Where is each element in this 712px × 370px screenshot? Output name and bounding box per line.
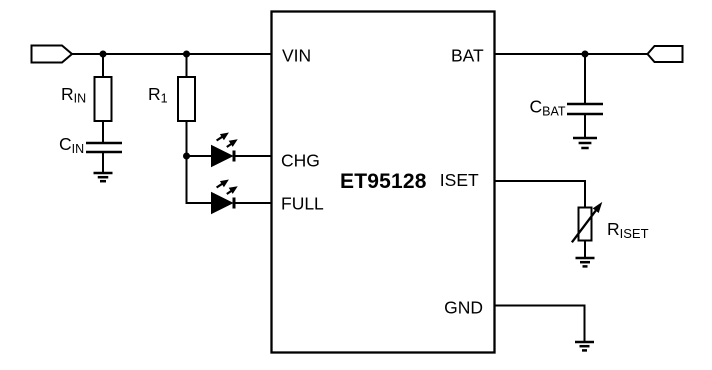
wire CHG LED to pin: [234, 155, 272, 157]
LED D1 arrow 2: [227, 139, 238, 147]
node RIN junction: [100, 51, 107, 58]
wire FULL LED to pin: [234, 202, 272, 204]
wire RIN to CIN: [102, 121, 104, 143]
resistor RISET: [579, 208, 592, 241]
resistor R1: [178, 77, 195, 121]
svg-text:ET95128: ET95128: [340, 170, 427, 193]
ground (CIN): [94, 173, 113, 181]
wire RIN top: [102, 54, 104, 78]
wire CBAT to ground: [584, 114, 586, 139]
capacitor CBAT: [567, 104, 603, 114]
connector J2 (output): [648, 46, 683, 62]
LED D2 arrow 2: [227, 186, 238, 194]
ground (RISET): [576, 258, 595, 266]
wire VIN main: [72, 53, 272, 55]
LED D2 cathode bar: [233, 198, 236, 209]
node LED junction: [183, 153, 190, 160]
wire junction to CHG LED: [187, 155, 212, 157]
ground (CBAT): [573, 138, 597, 148]
op-amp U1 ET95128 body: [272, 12, 495, 353]
wire BAT main: [494, 53, 648, 55]
svg-text:GND: GND: [444, 298, 483, 318]
LED D1 arrow 1: [217, 133, 229, 141]
wire CBAT vertical: [584, 54, 586, 104]
LED D1 (CHG) triangle: [212, 146, 233, 167]
node BAT junction: [582, 51, 589, 58]
wire R1 bottom to FULL corner: [187, 121, 212, 203]
svg-text:ISET: ISET: [440, 170, 479, 190]
ground (GND pin): [575, 342, 594, 350]
wire ISET: [494, 181, 586, 208]
wire GND: [494, 306, 585, 343]
svg-text:BAT: BAT: [451, 46, 484, 66]
LED D2 arrow 1: [217, 180, 229, 188]
LED D1 cathode bar: [233, 151, 236, 162]
connector J1 (input): [32, 46, 73, 63]
wire RISET to ground: [584, 241, 586, 259]
node R1 junction: [183, 51, 190, 58]
svg-text:VIN: VIN: [282, 46, 311, 66]
arrow on RISET: [572, 202, 602, 242]
LED D2 (FULL) triangle: [212, 193, 233, 214]
svg-text:FULL: FULL: [281, 193, 324, 213]
svg-text:CHG: CHG: [281, 150, 320, 170]
capacitor CIN: [86, 143, 122, 152]
resistor RIN: [95, 77, 112, 121]
wire CIN to ground: [102, 152, 104, 173]
wire R1 top: [186, 54, 188, 78]
